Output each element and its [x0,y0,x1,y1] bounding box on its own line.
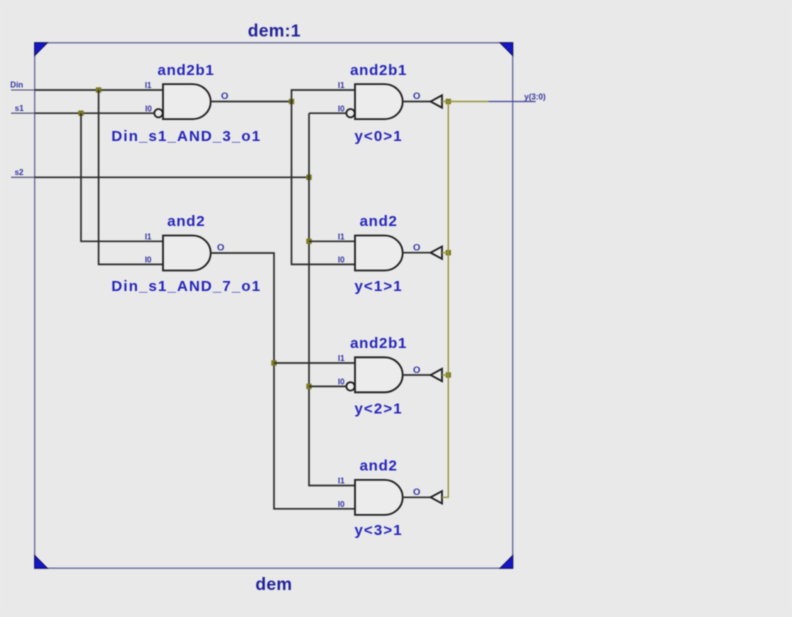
svg-text:s2: s2 [15,168,24,177]
wire net s2 horizontal [35,176,309,178]
svg-text:Din: Din [10,81,23,90]
junction bus y<0> [446,99,451,104]
svg-text:y<3>1: y<3>1 [354,522,402,539]
svg-text:and2: and2 [360,213,398,230]
svg-text:Din_s1_AND_7_o1: Din_s1_AND_7_o1 [111,278,261,295]
svg-text:and2b1: and2b1 [350,335,407,352]
wire branch to gate5 pin I1 [274,362,355,364]
bus stubs at taps [442,102,448,376]
wire net s1 to gate1 pin I0 [35,112,155,114]
junction s2 trunk to gate5 I0 [306,384,311,389]
svg-text:I1: I1 [338,81,345,90]
wire gate3 output to bus tap [403,101,431,103]
junction s2 trunk to gate4 I1 [306,239,311,244]
svg-text:y(3:0): y(3:0) [524,92,546,101]
input port Din [10,81,34,91]
bus tap y<2> [431,369,442,381]
svg-text:and2b1: and2b1 [350,62,407,79]
svg-text:and2: and2 [360,457,398,474]
svg-text:y<2>1: y<2>1 [354,401,402,418]
svg-text:and2b1: and2b1 [157,62,214,79]
svg-text:O: O [221,91,228,102]
svg-text:y<1>1: y<1>1 [354,278,402,295]
wire gate2 output down to gate7 pin I0 [211,253,356,509]
wire s2 trunk to gate4 pin I1 [309,240,355,242]
wire s2 trunk to gate5 pin I0 [309,385,347,387]
svg-text:I0: I0 [338,256,345,265]
svg-text:I0: I0 [145,256,152,265]
svg-text:Din_s1_AND_3_o1: Din_s1_AND_3_o1 [111,128,261,145]
svg-text:I1: I1 [338,477,345,486]
junction gate1 output branch [289,99,294,104]
wire gate4 output to bus tap [403,252,431,254]
AND2 gate y<3>1 [354,457,402,539]
output port y(3:0) [489,92,546,101]
junction net s1 branch [78,111,83,116]
AND2B1 gate Din_s1_AND_3_o1 [111,62,261,145]
input port s1 [11,104,35,113]
bus tap y<0> [431,95,442,107]
svg-text:I0: I0 [145,105,152,114]
bus y(3:0) trunk [442,102,489,498]
wire net s2 vertical trunk to gate3 I0, gate7 I1 [309,113,355,485]
wire node up to gate3 pin I1 [292,90,356,102]
wire gate1 output to node [211,101,292,103]
bus tap y<1> [431,247,442,259]
wire gate5 output to bus tap [403,374,431,376]
wire net Din to gate1 pin I1 [35,89,163,91]
AND2 gate y<1>1 [354,213,402,295]
bus tap y<3> [431,491,442,503]
svg-text:I0: I0 [338,378,345,387]
junction bus y<2> [446,372,451,377]
wire node down to gate4 pin I0 [292,102,356,265]
junction bus y<1> [446,250,451,255]
svg-text:dem: dem [255,574,292,594]
svg-text:s1: s1 [15,104,24,113]
AND2B1 gate y<0>1 [346,62,407,145]
AND2B1 gate y<2>1 [346,335,407,418]
svg-text:I1: I1 [338,354,345,363]
svg-text:I0: I0 [338,105,345,114]
svg-text:and2: and2 [167,213,205,230]
svg-text:I1: I1 [338,232,345,241]
svg-text:dem:1: dem:1 [248,20,301,40]
svg-text:I1: I1 [145,81,152,90]
junction net Din branch [96,87,101,92]
wire gate6 output to bus tap [403,496,431,498]
svg-text:I1: I1 [145,232,152,241]
svg-text:I0: I0 [338,500,345,509]
wire net Din down to gate2 pin I0 [99,90,163,264]
wire net s1 down to gate2 pin I1 [81,113,163,241]
svg-text:y<0>1: y<0>1 [354,128,402,145]
junction net s2 branch [306,175,311,180]
input port s2 [11,168,35,178]
AND2 gate Din_s1_AND_7_o1 [111,213,261,295]
svg-text:O: O [413,91,420,102]
svg-text:O: O [217,243,224,254]
junction gate2 output to gate5 branch [271,360,276,365]
